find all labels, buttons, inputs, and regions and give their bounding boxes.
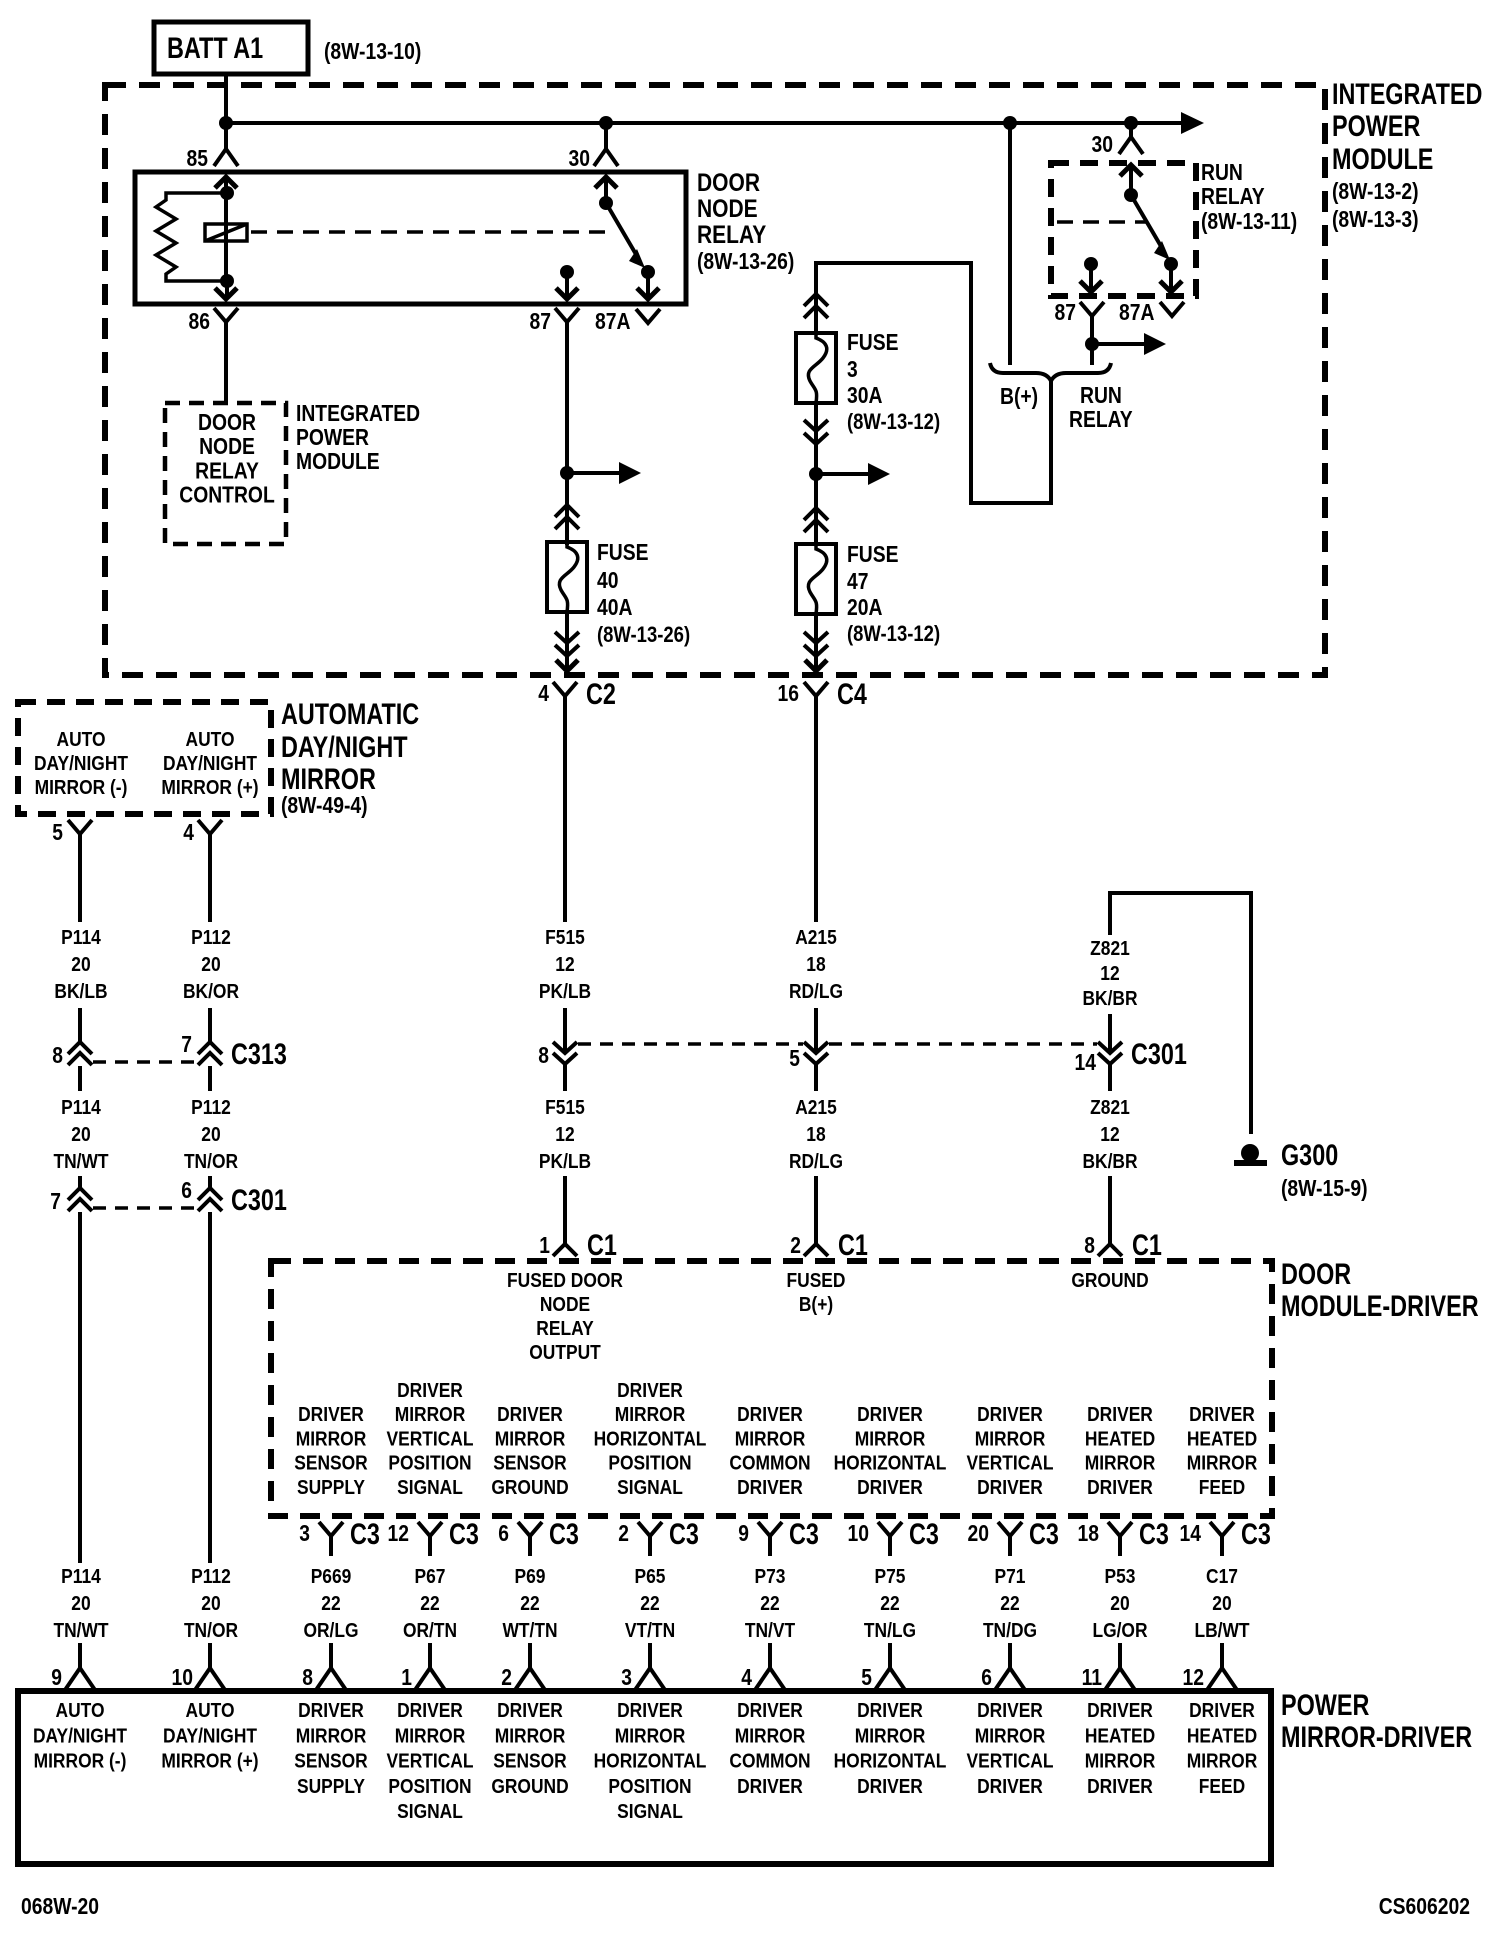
- svg-text:DAY/NIGHT: DAY/NIGHT: [163, 1725, 257, 1747]
- label power mirror pin DRIVER MIRROR HORIZONTAL POSITION SIGNAL: [594, 1700, 707, 1823]
- svg-text:20A: 20A: [847, 594, 883, 620]
- junction node switch pivot: [599, 196, 613, 210]
- wire fuse 47 to C4: [814, 614, 818, 670]
- relay coil K1: [205, 224, 247, 241]
- svg-text:8: 8: [302, 1664, 313, 1690]
- wire F515 upper: [563, 712, 567, 922]
- pin 87A run relay connector dead end: [1160, 302, 1184, 316]
- label door module pin DRIVER HEATED MIRROR DRIVER: [1085, 1404, 1156, 1499]
- wire F515 to C1: [563, 1176, 567, 1244]
- pin 30 run relay connector: [1119, 137, 1143, 154]
- wire A215 to C1: [814, 1176, 818, 1244]
- svg-text:DOOR: DOOR: [697, 169, 760, 197]
- arrow into run relay at 30: [1129, 165, 1133, 195]
- junction node bus at B+ drop: [1003, 116, 1017, 130]
- dashed link C313: [93, 1060, 199, 1064]
- label power mirror pin DRIVER MIRROR HORIZONTAL DRIVER: [834, 1700, 947, 1798]
- svg-text:30: 30: [1092, 131, 1114, 157]
- svg-text:22: 22: [1000, 1593, 1019, 1615]
- pin 12 connector power mirror: [1207, 1668, 1237, 1690]
- svg-text:DAY/NIGHT: DAY/NIGHT: [33, 1725, 127, 1747]
- connector C3 pin 20: [998, 1522, 1022, 1536]
- svg-text:CS606202: CS606202: [1379, 1893, 1470, 1919]
- svg-text:3: 3: [847, 356, 858, 382]
- bracket joining B+ and RUN RELAY feeds: [990, 363, 1111, 381]
- wire below C301 E: [1108, 1064, 1112, 1091]
- svg-text:18: 18: [806, 1124, 825, 1146]
- svg-text:A215: A215: [795, 927, 837, 949]
- module DOOR MODULE-DRIVER box: [271, 1261, 1272, 1516]
- label G300 (8W-15-9): [1281, 1139, 1368, 1201]
- label FUSED B(+): [787, 1270, 846, 1316]
- wire below C301 D: [814, 1064, 818, 1091]
- svg-text:4: 4: [538, 680, 549, 706]
- svg-text:TN/DG: TN/DG: [983, 1620, 1037, 1642]
- svg-text:MIRROR: MIRROR: [1085, 1453, 1156, 1475]
- junction node bus at door relay pin 30: [599, 116, 613, 130]
- pin 87A connector dead end: [636, 309, 660, 323]
- connector chevrons below fuse 40: [555, 632, 579, 643]
- connector C1 pin 1: [553, 1244, 577, 1256]
- svg-text:MIRROR: MIRROR: [975, 1428, 1046, 1450]
- label Z821 12 BK/BR upper: [1082, 938, 1138, 1010]
- svg-text:COMMON: COMMON: [729, 1751, 810, 1773]
- svg-text:40A: 40A: [597, 594, 633, 620]
- ground G300: [1241, 1144, 1259, 1162]
- svg-text:SIGNAL: SIGNAL: [397, 1477, 463, 1499]
- svg-text:DRIVER: DRIVER: [1087, 1404, 1153, 1426]
- svg-text:B(+): B(+): [799, 1294, 833, 1316]
- svg-text:12: 12: [555, 954, 574, 976]
- svg-text:POWER: POWER: [296, 424, 369, 450]
- dashed mechanical link relay K1: [251, 230, 610, 234]
- svg-text:SENSOR: SENSOR: [294, 1453, 368, 1475]
- svg-text:DRIVER: DRIVER: [737, 1776, 803, 1798]
- svg-text:C301: C301: [231, 1184, 287, 1217]
- label P73 22 TN/VT: [745, 1566, 795, 1642]
- svg-text:068W-20: 068W-20: [21, 1893, 99, 1919]
- svg-text:22: 22: [640, 1593, 659, 1615]
- pin 9 connector: [65, 1668, 95, 1690]
- svg-text:NODE: NODE: [199, 433, 255, 459]
- svg-text:BK/LB: BK/LB: [54, 981, 107, 1003]
- wire bracket to fuse 3 feed: [816, 263, 1051, 503]
- wire P75 to power mirror: [888, 1643, 892, 1668]
- svg-text:SENSOR: SENSOR: [294, 1751, 368, 1773]
- svg-text:47: 47: [847, 568, 869, 594]
- label F515 12 PK/LB upper: [539, 927, 591, 1003]
- svg-text:MIRROR: MIRROR: [1187, 1751, 1258, 1773]
- svg-text:2: 2: [790, 1232, 801, 1258]
- svg-text:C3: C3: [350, 1518, 380, 1551]
- svg-text:DOOR: DOOR: [198, 409, 256, 435]
- connector chevrons below fuse 47: [804, 632, 828, 643]
- wire P114 to C301 A: [78, 1176, 82, 1188]
- svg-text:RELAY: RELAY: [1069, 406, 1133, 432]
- label door module pin DRIVER MIRROR HORIZONTAL DRIVER: [834, 1404, 947, 1499]
- svg-text:INTEGRATED: INTEGRATED: [1332, 78, 1482, 111]
- svg-text:RELAY: RELAY: [1201, 183, 1265, 209]
- svg-text:SUPPLY: SUPPLY: [297, 1776, 366, 1798]
- svg-text:20: 20: [201, 1593, 220, 1615]
- label power mirror pin DRIVER MIRROR SENSOR SUPPLY: [294, 1700, 368, 1798]
- pin 11 connector power mirror: [1105, 1668, 1135, 1690]
- connector C1 pin 8: [1098, 1244, 1122, 1256]
- fuse F3: [796, 333, 836, 403]
- label P112 20 BK/OR: [183, 927, 240, 1003]
- arrow feed tap right: [567, 471, 621, 475]
- arrow out of box at 87: [565, 272, 569, 297]
- svg-text:DRIVER: DRIVER: [298, 1404, 364, 1426]
- svg-text:86: 86: [189, 308, 211, 334]
- pin 5 connector mirror minus: [68, 820, 92, 834]
- svg-text:DRIVER: DRIVER: [977, 1700, 1043, 1722]
- svg-text:SENSOR: SENSOR: [493, 1751, 567, 1773]
- connector C3 pin 18: [1108, 1522, 1132, 1536]
- svg-text:16: 16: [778, 680, 800, 706]
- svg-text:87A: 87A: [595, 308, 631, 334]
- label FUSE 40 40A (8W-13-26): [597, 539, 690, 647]
- junction node run output tap: [1085, 337, 1099, 351]
- connector C3 pin 9: [758, 1522, 782, 1536]
- svg-text:DAY/NIGHT: DAY/NIGHT: [163, 753, 257, 775]
- resistor across relay coil: [156, 193, 227, 281]
- svg-text:(8W-13-12): (8W-13-12): [847, 409, 940, 434]
- svg-text:OUTPUT: OUTPUT: [529, 1342, 601, 1364]
- arrow out of box at 87A: [646, 272, 650, 297]
- svg-text:MIRROR: MIRROR: [855, 1428, 926, 1450]
- connector chevrons below fuse 3: [804, 420, 828, 431]
- svg-text:11: 11: [1082, 1664, 1103, 1690]
- svg-text:FEED: FEED: [1199, 1776, 1245, 1798]
- svg-text:OR/LG: OR/LG: [303, 1620, 358, 1642]
- svg-text:6: 6: [981, 1664, 992, 1690]
- svg-text:MIRROR: MIRROR: [395, 1404, 466, 1426]
- label door module pin DRIVER MIRROR COMMON DRIVER: [729, 1404, 810, 1499]
- arrow fuse tap right: [816, 472, 870, 476]
- svg-text:P65: P65: [635, 1566, 666, 1588]
- module DOOR NODE RELAY CONTROL box: [165, 403, 286, 544]
- pin 4 connector power mirror: [755, 1668, 785, 1690]
- label GROUND: [1071, 1270, 1148, 1292]
- svg-text:DRIVER: DRIVER: [857, 1404, 923, 1426]
- svg-text:HEATED: HEATED: [1085, 1428, 1155, 1450]
- svg-text:Z821: Z821: [1090, 1097, 1130, 1119]
- junction node bus at run relay pin 30: [1124, 116, 1138, 130]
- svg-text:87: 87: [1055, 299, 1077, 325]
- svg-text:1: 1: [539, 1232, 550, 1258]
- svg-text:AUTO: AUTO: [186, 729, 235, 751]
- svg-text:TN/WT: TN/WT: [53, 1151, 108, 1173]
- label door module pin DRIVER HEATED MIRROR FEED: [1187, 1404, 1258, 1499]
- svg-text:AUTO: AUTO: [57, 729, 106, 751]
- wire below C301 C: [563, 1064, 567, 1091]
- pin 4 connector mirror plus: [198, 820, 222, 834]
- svg-text:POSITION: POSITION: [388, 1776, 471, 1798]
- svg-text:MIRROR: MIRROR: [495, 1725, 566, 1747]
- connector C301 pin 7 chevrons: [68, 1188, 92, 1200]
- svg-text:RD/LG: RD/LG: [789, 981, 843, 1003]
- svg-text:MIRROR: MIRROR: [735, 1428, 806, 1450]
- svg-text:C3: C3: [449, 1518, 479, 1551]
- label P53 20 LG/OR: [1092, 1566, 1148, 1642]
- label door module pin DRIVER MIRROR VERTICAL DRIVER: [967, 1404, 1054, 1499]
- label door module pin DRIVER MIRROR SENSOR SUPPLY: [294, 1404, 368, 1499]
- svg-text:A215: A215: [795, 1097, 837, 1119]
- pin 10 connector: [195, 1668, 225, 1690]
- svg-text:DRIVER: DRIVER: [857, 1776, 923, 1798]
- wire coil 85 to 86: [224, 193, 228, 281]
- svg-text:C3: C3: [1241, 1518, 1271, 1551]
- svg-text:P69: P69: [515, 1566, 546, 1588]
- svg-text:TN/VT: TN/VT: [745, 1620, 795, 1642]
- svg-text:POSITION: POSITION: [608, 1453, 691, 1475]
- svg-text:P53: P53: [1105, 1566, 1136, 1588]
- wire coil terminal 85 entry: [224, 176, 228, 193]
- connector C3 pin 6: [518, 1522, 542, 1536]
- svg-text:DRIVER: DRIVER: [617, 1380, 683, 1402]
- label P67 22 OR/TN: [403, 1566, 457, 1642]
- label power mirror pin DRIVER MIRROR VERTICAL DRIVER: [967, 1700, 1054, 1798]
- wire Z821 to C301: [1108, 1014, 1112, 1052]
- wire P669 to power mirror: [329, 1643, 333, 1668]
- svg-text:MIRROR: MIRROR: [855, 1725, 926, 1747]
- svg-text:AUTO: AUTO: [56, 1700, 105, 1722]
- svg-text:DOOR: DOOR: [1281, 1258, 1351, 1291]
- svg-text:POSITION: POSITION: [388, 1453, 471, 1475]
- svg-text:3: 3: [299, 1520, 310, 1546]
- svg-text:FUSED: FUSED: [787, 1270, 846, 1292]
- connector C2 pin 4: [553, 682, 577, 696]
- svg-text:(8W-49-4): (8W-49-4): [281, 792, 368, 818]
- svg-text:HEATED: HEATED: [1085, 1725, 1155, 1747]
- svg-text:8: 8: [538, 1042, 549, 1068]
- label power mirror pin AUTO DAY/NIGHT MIRROR (-): [33, 1700, 127, 1773]
- svg-text:MIRROR: MIRROR: [495, 1428, 566, 1450]
- label DOOR NODE RELAY (8W-13-26): [697, 169, 794, 274]
- wire P114 to power mirror: [78, 1643, 82, 1668]
- svg-text:VERTICAL: VERTICAL: [967, 1751, 1054, 1773]
- svg-text:P71: P71: [995, 1566, 1026, 1588]
- svg-text:F515: F515: [545, 927, 585, 949]
- label power mirror pin DRIVER MIRROR SENSOR GROUND: [491, 1700, 568, 1798]
- svg-text:SUPPLY: SUPPLY: [297, 1477, 366, 1499]
- svg-text:C3: C3: [1139, 1518, 1169, 1551]
- svg-text:FUSE: FUSE: [847, 541, 899, 567]
- connector C301 pin 5 chevrons: [804, 1042, 828, 1053]
- arrow run output right: [1092, 342, 1146, 346]
- svg-text:(8W-13-2): (8W-13-2): [1332, 178, 1419, 204]
- wire B+ drop: [1008, 123, 1012, 365]
- svg-text:AUTO: AUTO: [186, 1700, 235, 1722]
- wire below C313 B: [208, 1066, 212, 1091]
- svg-text:DRIVER: DRIVER: [397, 1380, 463, 1402]
- svg-text:14: 14: [1075, 1049, 1097, 1075]
- svg-text:(8W-13-26): (8W-13-26): [697, 248, 794, 274]
- connector C4 pin 16: [804, 682, 828, 696]
- svg-text:12: 12: [1100, 1124, 1119, 1146]
- label INTEGRATED POWER MODULE (8W-13-2) (8W-13-3): [1332, 78, 1482, 232]
- wire battery bus across top: [226, 121, 1181, 125]
- pin 8 connector power mirror: [316, 1668, 346, 1690]
- svg-text:C3: C3: [909, 1518, 939, 1551]
- wire P114 long down: [78, 1212, 82, 1563]
- label P71 22 TN/DG: [983, 1566, 1037, 1642]
- svg-text:20: 20: [1212, 1593, 1231, 1615]
- svg-text:C3: C3: [1029, 1518, 1059, 1551]
- svg-text:F515: F515: [545, 1097, 585, 1119]
- svg-text:DAY/NIGHT: DAY/NIGHT: [281, 731, 408, 764]
- arrow at C2: [556, 660, 578, 671]
- svg-text:POWER: POWER: [1332, 110, 1421, 143]
- svg-text:2: 2: [501, 1664, 512, 1690]
- wire P112 to C301 B: [208, 1176, 212, 1188]
- label RUN RELAY (8W-13-11): [1201, 159, 1297, 234]
- connector C3 pin 3: [319, 1522, 343, 1536]
- wire F515 to C301: [563, 1008, 567, 1052]
- integrated power module box: [105, 85, 1325, 675]
- wire run relay pin 30 drop: [1129, 123, 1133, 138]
- svg-text:MIRROR: MIRROR: [1085, 1751, 1156, 1773]
- svg-text:AUTOMATIC: AUTOMATIC: [281, 698, 419, 731]
- svg-text:VT/TN: VT/TN: [625, 1620, 675, 1642]
- svg-text:20: 20: [201, 1124, 220, 1146]
- svg-text:CONTROL: CONTROL: [179, 482, 275, 508]
- svg-text:VERTICAL: VERTICAL: [387, 1751, 474, 1773]
- svg-text:SIGNAL: SIGNAL: [617, 1477, 683, 1499]
- wire below C313 A: [78, 1066, 82, 1091]
- svg-text:(8W-13-26): (8W-13-26): [597, 622, 690, 647]
- svg-text:9: 9: [738, 1520, 749, 1546]
- svg-text:DRIVER: DRIVER: [298, 1700, 364, 1722]
- svg-text:22: 22: [321, 1593, 340, 1615]
- svg-text:HORIZONTAL: HORIZONTAL: [834, 1751, 947, 1773]
- svg-text:DRIVER: DRIVER: [1189, 1700, 1255, 1722]
- wire A215 upper: [814, 712, 818, 922]
- svg-text:P112: P112: [191, 927, 231, 949]
- label AUTOMATIC DAY/NIGHT MIRROR (8W-49-4): [281, 698, 419, 818]
- pin 3 connector power mirror: [635, 1668, 665, 1690]
- svg-text:MIRROR (-): MIRROR (-): [35, 777, 128, 799]
- pin 87 run relay connector: [1080, 302, 1104, 316]
- svg-text:TN/WT: TN/WT: [53, 1620, 108, 1642]
- svg-text:7: 7: [181, 1031, 192, 1057]
- svg-text:RELAY: RELAY: [536, 1318, 594, 1340]
- svg-text:12: 12: [388, 1520, 410, 1546]
- svg-text:MIRROR (-): MIRROR (-): [34, 1751, 127, 1773]
- wire 86 to door node relay control: [224, 340, 228, 403]
- svg-text:DRIVER: DRIVER: [977, 1477, 1043, 1499]
- svg-text:10: 10: [172, 1664, 194, 1690]
- svg-text:HEATED: HEATED: [1187, 1428, 1257, 1450]
- svg-text:RELAY: RELAY: [195, 457, 259, 483]
- wire P53 to power mirror: [1118, 1643, 1122, 1668]
- switch blade K1 to 87A: [606, 203, 637, 256]
- svg-text:30A: 30A: [847, 382, 883, 408]
- svg-text:C3: C3: [549, 1518, 579, 1551]
- svg-text:HORIZONTAL: HORIZONTAL: [594, 1428, 707, 1450]
- connector C301 pin 6 chevrons: [198, 1188, 222, 1200]
- label power mirror pin DRIVER HEATED MIRROR FEED: [1187, 1700, 1258, 1798]
- svg-text:C3: C3: [789, 1518, 819, 1551]
- wire P73 to power mirror: [768, 1643, 772, 1668]
- svg-text:LG/OR: LG/OR: [1092, 1620, 1148, 1642]
- label A215 18 RD/LG upper: [789, 927, 843, 1003]
- svg-text:GROUND: GROUND: [1071, 1270, 1148, 1292]
- wire P112 long down: [208, 1212, 212, 1563]
- svg-text:WT/TN: WT/TN: [502, 1620, 557, 1642]
- wire Z821 to C1: [1108, 1176, 1112, 1244]
- label P69 22 WT/TN: [502, 1566, 557, 1642]
- label door module pin DRIVER MIRROR VERTICAL POSITION SIGNAL: [387, 1380, 474, 1499]
- label RUN RELAY lower: [1069, 382, 1133, 432]
- svg-text:POWER: POWER: [1281, 1689, 1370, 1722]
- svg-text:G300: G300: [1281, 1139, 1338, 1172]
- svg-text:C1: C1: [838, 1229, 868, 1262]
- svg-text:GROUND: GROUND: [491, 1477, 568, 1499]
- svg-text:2: 2: [618, 1520, 629, 1546]
- label power mirror pin DRIVER HEATED MIRROR DRIVER: [1085, 1700, 1156, 1798]
- svg-text:MIRROR: MIRROR: [296, 1428, 367, 1450]
- svg-text:18: 18: [806, 954, 825, 976]
- junction node 87: [560, 265, 574, 279]
- arrow into box at 85: [215, 177, 237, 188]
- arrow out run relay 87A: [1169, 264, 1173, 290]
- connector C301 pin 14 chevrons: [1098, 1042, 1122, 1053]
- svg-text:5: 5: [789, 1045, 800, 1071]
- wire run relay 87 down: [1090, 334, 1094, 365]
- svg-text:P75: P75: [875, 1566, 906, 1588]
- label FUSE 47 20A (8W-13-12): [847, 541, 940, 646]
- arrow out of box at 86: [225, 281, 229, 297]
- connector chevrons above fuse 3: [804, 294, 828, 306]
- svg-text:DRIVER: DRIVER: [1087, 1477, 1153, 1499]
- svg-text:12: 12: [1100, 963, 1119, 985]
- svg-text:85: 85: [187, 145, 209, 171]
- svg-text:DAY/NIGHT: DAY/NIGHT: [34, 753, 128, 775]
- label FUSED DOOR NODE RELAY OUTPUT: [507, 1270, 623, 1364]
- svg-text:FEED: FEED: [1199, 1477, 1245, 1499]
- svg-text:PK/LB: PK/LB: [539, 981, 591, 1003]
- label FUSE 3 30A (8W-13-12): [847, 329, 940, 434]
- svg-text:8: 8: [1084, 1232, 1095, 1258]
- svg-text:(8W-15-9): (8W-15-9): [1281, 1175, 1368, 1201]
- svg-text:P73: P73: [755, 1566, 786, 1588]
- arrow out run relay 87: [1089, 264, 1093, 290]
- wire 87 down to fuse 40: [565, 340, 569, 545]
- wire A215 to C301: [814, 1008, 818, 1052]
- pin 1 connector power mirror: [415, 1668, 445, 1690]
- junction node run switch pivot: [1124, 188, 1138, 202]
- arrow into box at 30: [595, 177, 617, 188]
- label P669 22 OR/LG: [303, 1566, 358, 1642]
- svg-text:DRIVER: DRIVER: [857, 1700, 923, 1722]
- connector C1 pin 2: [804, 1244, 828, 1256]
- svg-text:HORIZONTAL: HORIZONTAL: [594, 1751, 707, 1773]
- dashed link C301 left: [93, 1206, 199, 1210]
- label P114 20 BK/LB: [54, 927, 107, 1003]
- svg-text:20: 20: [71, 954, 90, 976]
- svg-text:(8W-13-11): (8W-13-11): [1201, 208, 1297, 234]
- svg-text:P114: P114: [61, 1097, 101, 1119]
- wire P67 to power mirror: [428, 1643, 432, 1668]
- junction node run 87: [1084, 257, 1098, 271]
- svg-text:18: 18: [1078, 1520, 1100, 1546]
- relay K2 RUN RELAY box: [1051, 163, 1196, 296]
- svg-text:FUSE: FUSE: [597, 539, 649, 565]
- label P112 20 TN/OR lower: [184, 1566, 239, 1642]
- connector C313 pin 7 chevrons: [198, 1042, 222, 1054]
